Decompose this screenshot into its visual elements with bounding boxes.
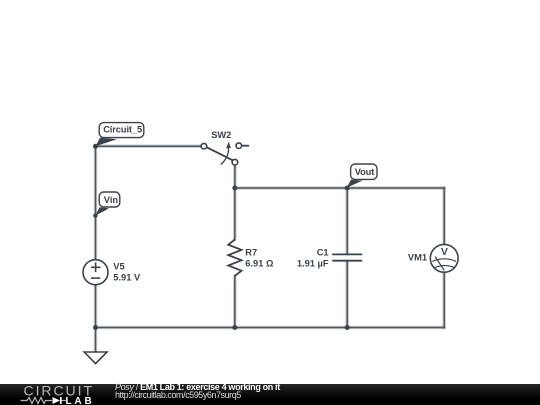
svg-text:R7: R7: [245, 248, 257, 258]
capacitor C1: [297, 248, 362, 269]
ground: [84, 352, 107, 364]
wire left vertical lower (V5 bottom to ground): [95, 285, 97, 352]
svg-text:V: V: [441, 247, 448, 258]
junction dot switch/mid rail: [232, 186, 237, 191]
wire left vertical upper (node to V5 top) halo: [94, 146, 97, 259]
V5 minus sign: [91, 277, 100, 279]
svg-text:Circuit_5: Circuit_5: [103, 125, 142, 135]
wire mid rail (switch node to voltmeter) halo: [235, 186, 444, 189]
VM1 needle: [435, 257, 444, 271]
node label Vin: [93, 192, 120, 218]
wire left vertical upper (node to V5 top): [95, 146, 97, 259]
svg-text:VM1: VM1: [408, 252, 427, 262]
SW2 lever: [206, 147, 232, 160]
wire voltmeter bottom lead: [443, 272, 445, 327]
svg-text:V5: V5: [113, 262, 124, 272]
SW2 throw terminal circle (right): [236, 143, 242, 149]
wire top (Circuit_5 node to switch) halo: [96, 144, 202, 147]
wire left vertical lower (V5 bottom to ground) halo: [94, 285, 97, 352]
voltage source V5: [83, 260, 141, 285]
wire bottom rail halo: [96, 326, 445, 329]
junction dot at Circuit_5 node: [93, 144, 98, 149]
svg-text:Vin: Vin: [104, 195, 119, 205]
SW2 pole terminal circle: [201, 143, 207, 149]
footer caption: [115, 383, 280, 399]
wire capacitor bottom lead: [346, 261, 348, 328]
switch SW2: [201, 130, 249, 165]
node label Circuit_5: [96, 123, 144, 147]
SW2 throw stub wire: [241, 145, 249, 147]
wire capacitor bottom lead halo: [346, 261, 349, 328]
wire top (Circuit_5 node to switch): [96, 145, 202, 147]
junction dot at V5 bottom rail: [93, 325, 98, 330]
wire switch common down to mid rail: [234, 165, 236, 188]
junction dot resistor bottom: [232, 325, 237, 330]
CircuitLab logo: [0, 384, 110, 405]
VM1 meter face upper arc: [432, 259, 456, 262]
resistor R7: [228, 240, 274, 276]
svg-text:5.91 V: 5.91 V: [113, 272, 141, 282]
SW2 actuation arrow: [221, 147, 229, 165]
svg-text:6.91 Ω: 6.91 Ω: [245, 258, 274, 268]
svg-text:C1: C1: [317, 248, 329, 258]
wire resistor bottom lead: [234, 276, 236, 328]
svg-text:1.91 µF: 1.91 µF: [297, 258, 329, 268]
node label Vout: [347, 164, 377, 188]
svg-text:CIRCUIT: CIRCUIT: [24, 384, 93, 399]
wire resistor bottom lead halo: [233, 276, 236, 328]
svg-text:LAB: LAB: [66, 396, 92, 405]
VM1 meter face lower arc: [434, 266, 455, 268]
junction dot capacitor bottom: [345, 325, 350, 330]
wire voltmeter bottom lead halo: [443, 272, 446, 327]
wire resistor top lead: [234, 188, 236, 240]
wire mid rail (switch node to voltmeter): [235, 187, 444, 189]
wire voltmeter top lead halo: [443, 188, 446, 244]
junction dot Vout node: [345, 186, 350, 191]
V5 plus sign: [91, 266, 101, 268]
SW2 throw terminal circle (bottom): [232, 159, 238, 165]
wire bottom rail: [96, 327, 445, 329]
wire switch common down to mid rail halo: [233, 165, 236, 188]
wire resistor top lead halo: [233, 188, 236, 240]
svg-text:SW2: SW2: [211, 130, 231, 140]
voltmeter VM1: [408, 244, 458, 272]
footer bar: [0, 384, 540, 405]
wire capacitor top lead: [346, 188, 348, 254]
wire capacitor top lead halo: [346, 188, 349, 254]
wire voltmeter top lead: [443, 188, 445, 244]
svg-text:Vout: Vout: [355, 167, 374, 177]
